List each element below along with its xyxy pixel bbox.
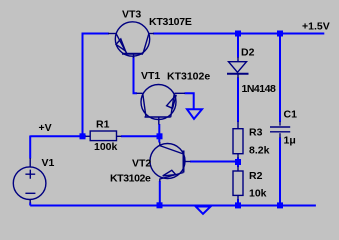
svg-text:C1: C1: [284, 109, 298, 121]
svg-text:+1.5V: +1.5V: [302, 21, 330, 33]
svg-text:+V: +V: [39, 122, 52, 134]
svg-text:VT2: VT2: [132, 157, 151, 169]
svg-text:D2: D2: [241, 47, 255, 59]
svg-text:R2: R2: [249, 170, 263, 182]
svg-text:VT1: VT1: [141, 70, 160, 82]
svg-text:1μ: 1μ: [284, 135, 296, 147]
svg-text:V1: V1: [42, 157, 55, 169]
svg-text:KT3102e: KT3102e: [110, 173, 151, 185]
svg-text:KT3107E: KT3107E: [149, 16, 192, 28]
svg-text:R3: R3: [249, 127, 263, 139]
svg-text:8.2k: 8.2k: [249, 145, 270, 157]
svg-text:KT3102e: KT3102e: [167, 71, 210, 83]
svg-text:100k: 100k: [94, 141, 118, 153]
svg-text:VT3: VT3: [122, 9, 141, 21]
svg-text:10k: 10k: [249, 187, 267, 199]
svg-text:1N4148: 1N4148: [242, 83, 276, 95]
svg-text:R1: R1: [96, 119, 110, 131]
